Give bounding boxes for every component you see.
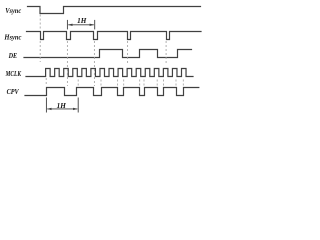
svg-text:DE: DE (8, 51, 17, 60)
dash above CPV notch3 rise x=123.7 (123, 80, 125, 87)
Vsync waveform (28, 7, 201, 14)
svg-text:Vsync: Vsync (5, 6, 22, 15)
dashed guide x=67.4 (Hsync pulse2) (66, 41, 68, 86)
dashed guide x=46 (MCLK start / CPV rise) (45, 78, 47, 86)
MCLK waveform (26, 69, 193, 77)
dash above CPV notch6 rise x=183.3 (182, 80, 184, 87)
svg-text:1H: 1H (57, 102, 67, 110)
dash above CPV notch5 fall x=157.2 (156, 80, 158, 87)
dash above CPV notch4 rise x=144 (143, 80, 145, 87)
dashed guide x=94.4 (Hsync pulse3) (93, 41, 95, 86)
dashed guide x=127.6 (Hsync pulse4) (127, 41, 129, 65)
DE waveform (24, 50, 192, 58)
dash above CPV notch5 rise x=163.5 (163, 80, 165, 87)
dash above CPV notch3 fall x=117.6 (117, 80, 119, 87)
svg-text:CPV: CPV (7, 87, 20, 96)
svg-text:MCLK: MCLK (5, 69, 22, 78)
CPV waveform (25, 88, 199, 96)
1H dimension lower (CPV period) (46, 98, 78, 113)
dash above CPV notch2 rise x=101 (100, 80, 102, 87)
svg-text:1H: 1H (77, 17, 87, 25)
dashed guide x=78.2 (CPV rise2) (77, 80, 79, 87)
Hsync waveform (27, 32, 202, 40)
dash above CPV notch6 fall x=176 (175, 80, 177, 87)
dashed guide at Vsync fall / Hsync pulse1 x=40 (40, 15, 183, 87)
dash above CPV notch4 fall x=139.7 (139, 80, 141, 87)
1H dimension upper (between Hsync pulses 2-3) (67, 20, 94, 30)
dashed guide x=166 (Hsync pulse5) (165, 41, 167, 65)
svg-text:Hsync: Hsync (4, 33, 23, 42)
